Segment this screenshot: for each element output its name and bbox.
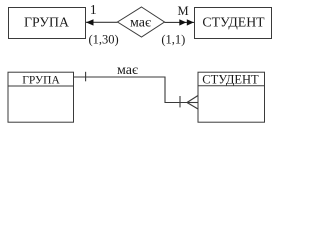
wire diamond to СТУДЕНТ (165, 21, 195, 23)
svg-text:ГРУПА: ГРУПА (24, 15, 69, 30)
svg-text:має: має (117, 63, 138, 78)
relationship diamond має (118, 7, 165, 37)
svg-text:(1,30): (1,30) (88, 33, 118, 47)
relation wire ГРУПА to СТУДЕНТ (stepped) (74, 77, 188, 103)
svg-text:ГРУПА: ГРУПА (22, 75, 60, 87)
svg-text:(1,1): (1,1) (161, 33, 185, 47)
table box СТУДЕНТ (crow's-foot diagram) (198, 72, 265, 122)
entity box СТУДЕНТ (Chen diagram) (195, 8, 272, 39)
svg-text:М: М (177, 4, 188, 18)
svg-text:має: має (130, 15, 151, 30)
one-cardinality tick before crow's foot (179, 96, 181, 107)
svg-text:СТУДЕНТ: СТУДЕНТ (202, 73, 259, 87)
table box ГРУПА (crow's-foot diagram) (8, 72, 74, 122)
double arrowhead into СТУДЕНТ (179, 19, 194, 25)
entity box ГРУПА (Chen diagram) (9, 8, 86, 39)
crow's foot into СТУДЕНТ (187, 96, 198, 110)
svg-text:1: 1 (90, 3, 97, 18)
one-cardinality tick near ГРУПА (85, 72, 87, 82)
arrowhead into ГРУПА (86, 19, 94, 25)
wire diamond to ГРУПА (86, 21, 118, 23)
svg-text:СТУДЕНТ: СТУДЕНТ (202, 15, 265, 30)
